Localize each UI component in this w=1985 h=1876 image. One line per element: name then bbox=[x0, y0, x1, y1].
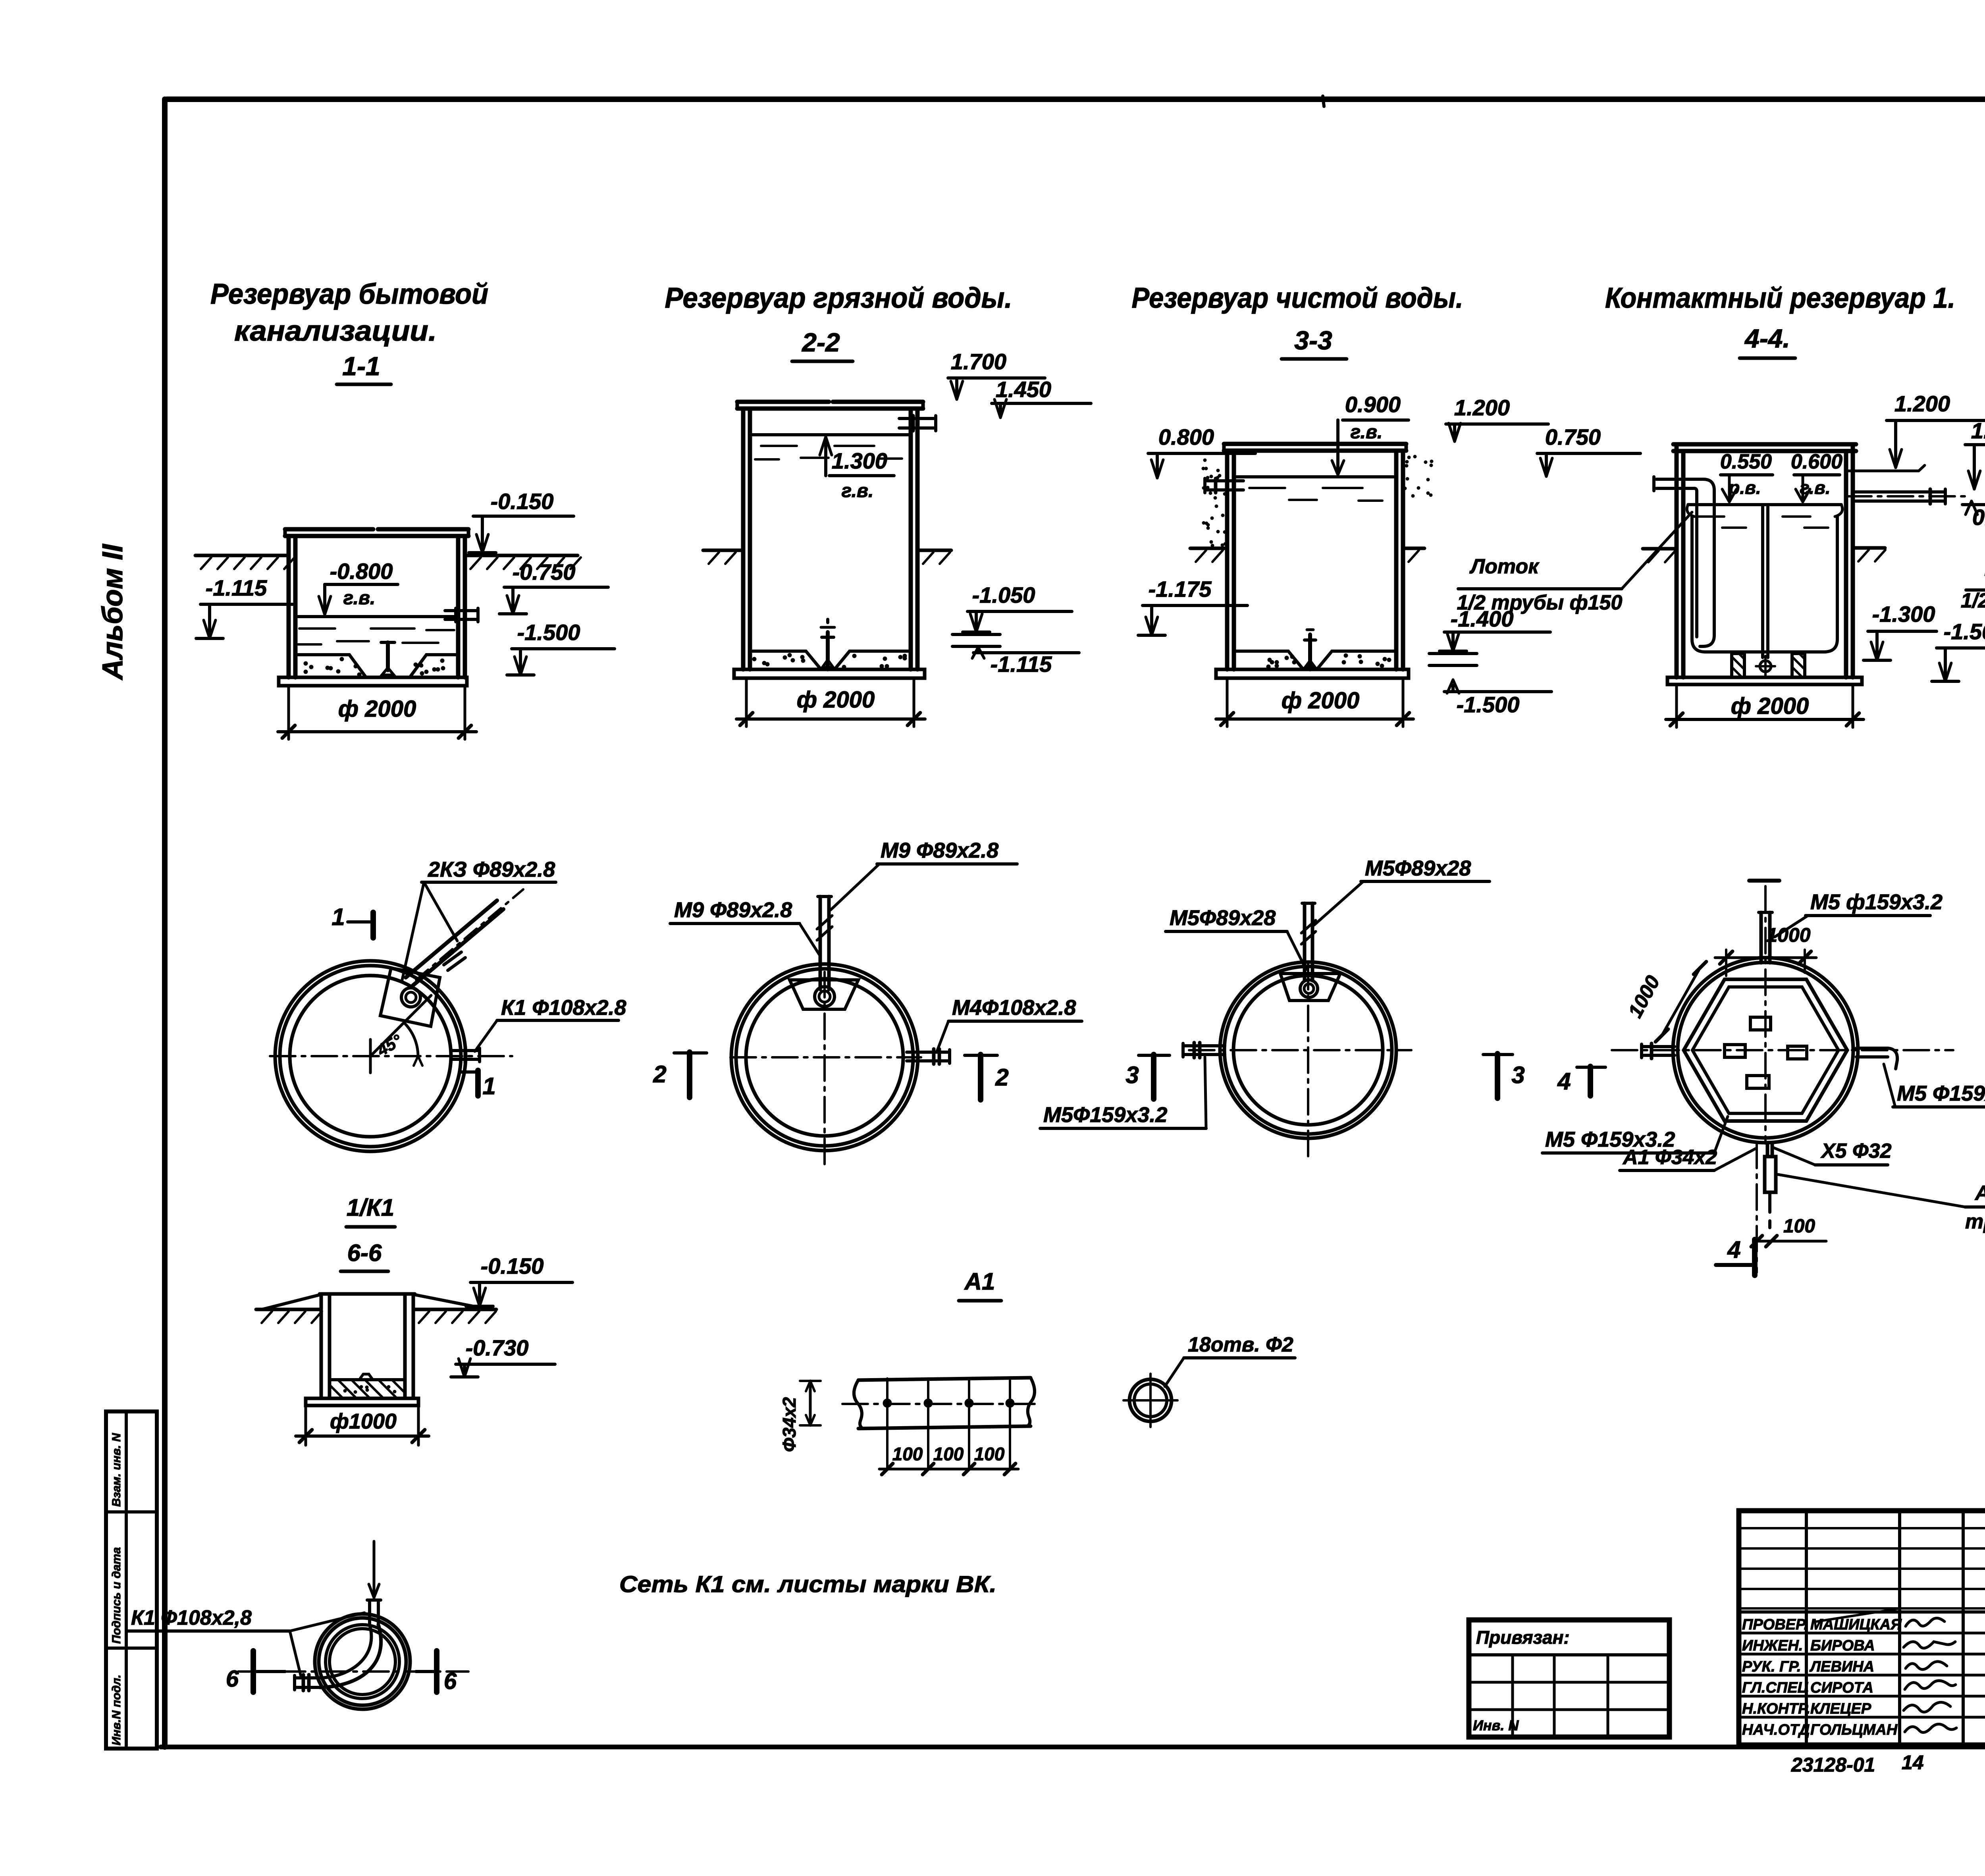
left margin table frame bbox=[106, 1411, 157, 1749]
leader K1 to stub plan 1 bbox=[475, 1020, 497, 1051]
plan 2 horizontal centerline bbox=[730, 1056, 921, 1059]
pryvyazan header line bbox=[1469, 1653, 1669, 1656]
tank 1-1 base slab bbox=[279, 677, 467, 686]
plan 2 inner ring bbox=[746, 979, 903, 1136]
tank 2-2 sediment right bbox=[834, 651, 911, 669]
left margin table column line bbox=[125, 1411, 128, 1749]
plan 1 middle ring bbox=[280, 966, 461, 1147]
well 6-6 top cap bbox=[320, 1292, 415, 1296]
plan 2 lotok outlet circle bbox=[815, 987, 834, 1006]
leader M5 top to riser plan 3 bbox=[1314, 881, 1363, 925]
top frame registration tick bbox=[1323, 96, 1324, 106]
tank 1-1 left wall bbox=[287, 536, 291, 677]
tank 4-4 inner trough rim bbox=[1688, 503, 1841, 506]
break lines between -1.400 and -1.500 tank 3-3 bbox=[1429, 652, 1477, 655]
svg-text:ГОЛЬЦМАН: ГОЛЬЦМАН bbox=[1810, 1722, 1898, 1738]
plan 4 hexagon inner bbox=[1692, 987, 1839, 1114]
dimension f34x2 tube A1 bbox=[809, 1381, 812, 1425]
leader 18 otv bbox=[1165, 1358, 1184, 1386]
plan 3 lotok trapezoid bbox=[1280, 974, 1340, 1001]
inlet pipe with elbow tank 4-4 bbox=[1656, 478, 1703, 481]
svg-text:2КЗ Ф89х2.8: 2КЗ Ф89х2.8 bbox=[428, 858, 555, 881]
pryvyazan grid row 2 bbox=[1469, 1708, 1669, 1711]
leader K1 detail to entry bbox=[290, 1613, 364, 1631]
svg-text:0.800: 0.800 bbox=[1158, 424, 1214, 449]
svg-text:-1.050: -1.050 bbox=[972, 582, 1035, 607]
svg-text:-1.500: -1.500 bbox=[1944, 619, 1985, 644]
leader M5 left to riser plan 3 bbox=[1287, 931, 1306, 970]
left margin table row line 2 bbox=[106, 1647, 157, 1650]
dimension f2000 tank 2-2 bbox=[745, 678, 748, 727]
pryvyazan grid col 1 bbox=[1511, 1655, 1514, 1737]
svg-text:1.000: 1.000 bbox=[1971, 418, 1985, 443]
plan 2 middle ring bbox=[736, 969, 913, 1146]
leader K1 detail to exit stub bbox=[290, 1631, 301, 1676]
svg-text:г.в.: г.в. bbox=[842, 480, 874, 501]
svg-text:100: 100 bbox=[1783, 1216, 1815, 1237]
svg-text:-1.500: -1.500 bbox=[1457, 692, 1520, 717]
plan 3 riser pipe M5 bbox=[1303, 903, 1307, 981]
pipe through right wall tank 1-1 bbox=[445, 609, 478, 612]
tank 2-2 bottom outlet pin bbox=[826, 619, 829, 623]
leader 2K3 to pipe upper bbox=[424, 882, 457, 941]
plan 4 futlyar casing bbox=[1765, 1157, 1776, 1192]
well 6-6 ground line left bbox=[256, 1308, 321, 1311]
svg-text:канализации.: канализации. bbox=[234, 315, 437, 347]
svg-text:-0.800: -0.800 bbox=[330, 559, 393, 584]
svg-text:Х5 Ф32: Х5 Ф32 bbox=[1820, 1139, 1892, 1163]
svg-text:БИРОВА: БИРОВА bbox=[1810, 1637, 1875, 1654]
tank 1-1 water dashes bbox=[299, 627, 335, 630]
tank 2-2 base slab bbox=[734, 669, 925, 678]
leader 2K3 to diagonal pipe bbox=[402, 882, 424, 981]
staff table column line 1 bbox=[1805, 1511, 1808, 1745]
svg-text:Взам. инв. N: Взам. инв. N bbox=[110, 1433, 123, 1507]
plan 1 lotok wedge bbox=[380, 968, 440, 1026]
dimension 1000 top plan 4 bbox=[1725, 950, 1727, 976]
plan 4 middle ring bbox=[1678, 962, 1853, 1138]
svg-text:6: 6 bbox=[444, 1668, 457, 1694]
tank 1-1 sediment right bbox=[410, 655, 458, 677]
svg-text:ГЛ.СПЕЦ: ГЛ.СПЕЦ bbox=[1742, 1679, 1809, 1696]
ground line right of tank 4-4 bbox=[1853, 546, 1885, 550]
svg-text:4-4.: 4-4. bbox=[1744, 324, 1790, 353]
plan 3 middle ring bbox=[1224, 966, 1392, 1134]
svg-text:4: 4 bbox=[1557, 1068, 1571, 1095]
tank 4-4 base slab bbox=[1667, 677, 1862, 684]
break lines between -1.050 and -1.115 bbox=[952, 633, 1000, 636]
tank 4-4 water dashes right chamber bbox=[1783, 515, 1810, 518]
svg-text:1.300: 1.300 bbox=[832, 448, 887, 473]
tank 2-2 right wall bbox=[909, 409, 913, 669]
signature flourish over maschitskaya bbox=[1814, 1609, 1898, 1622]
plan 4 outer ring bbox=[1673, 958, 1858, 1143]
sheet frame left border bbox=[162, 99, 168, 1747]
section mark 2 right plan 2 bbox=[965, 1054, 997, 1057]
svg-text:г.в.: г.в. bbox=[343, 588, 376, 609]
plan 4 clamp right bbox=[1788, 1046, 1807, 1059]
tank 4-4 left wall bbox=[1675, 444, 1679, 677]
well 6-6 right wall bbox=[403, 1295, 407, 1398]
staff table column line 3 bbox=[1962, 1511, 1965, 1745]
pipe ring detail K1 inner circles bbox=[326, 1625, 399, 1699]
tank 1-1 bottom outlet pin bbox=[386, 642, 390, 670]
tank 3-3 right wall bbox=[1394, 451, 1399, 669]
svg-text:НАЧ.ОТД: НАЧ.ОТД bbox=[1742, 1722, 1810, 1738]
svg-text:А1: А1 bbox=[964, 1268, 995, 1295]
svg-text:23128-01: 23128-01 bbox=[1791, 1754, 1875, 1776]
plan 2 vertical centerline bbox=[823, 972, 826, 1165]
ground line right of tank 1-1 bbox=[465, 554, 578, 557]
svg-text:А1 Ф34х2: А1 Ф34х2 bbox=[1622, 1146, 1717, 1169]
plan 1 45 degree arc bbox=[404, 1023, 418, 1056]
plan 4 clamp top bbox=[1750, 1017, 1771, 1030]
backfill soil dots left of tank 3-3 bbox=[1202, 467, 1205, 470]
svg-text:М9 Ф89х2.8: М9 Ф89х2.8 bbox=[674, 898, 792, 922]
staff table frame bbox=[1739, 1511, 1985, 1745]
svg-text:Контактный резервуар 1.: Контактный резервуар 1. bbox=[1605, 282, 1955, 314]
plan 4 left stub bbox=[1642, 1045, 1675, 1048]
svg-text:М5 Ф159х3.2: М5 Ф159х3.2 bbox=[1897, 1082, 1985, 1105]
tank 1-1 water line bbox=[295, 615, 458, 618]
well 6-6 floor notch bbox=[359, 1374, 373, 1380]
dimension f2000 tank 4-4 bbox=[1675, 684, 1678, 727]
tank 3-3 lid bbox=[1224, 442, 1406, 446]
svg-text:РУК. ГР.: РУК. ГР. bbox=[1742, 1658, 1801, 1675]
pipe K1 flow arrow top bbox=[373, 1541, 376, 1594]
svg-text:М9 Ф89х2.8: М9 Ф89х2.8 bbox=[881, 839, 998, 862]
plan 2 lotok trapezoid bbox=[790, 980, 858, 1009]
svg-text:М5 ф159х3.2: М5 ф159х3.2 bbox=[1810, 890, 1943, 914]
svg-text:труба-футляр Ф100: труба-футляр Ф100 bbox=[1965, 1210, 1985, 1233]
tank 3-3 base slab bbox=[1216, 669, 1409, 678]
plan 4 clamp bottom bbox=[1747, 1076, 1769, 1088]
svg-text:3: 3 bbox=[1511, 1062, 1524, 1088]
outlet pipe centerline tank 4-4 bbox=[1846, 495, 1966, 497]
ground line left of tank 4-4 bbox=[1643, 547, 1677, 551]
well 6-6 concrete floor bbox=[330, 1380, 405, 1398]
svg-text:0.900: 0.900 bbox=[1345, 392, 1401, 417]
svg-text:М5Ф89х28: М5Ф89х28 bbox=[1365, 856, 1471, 880]
pryvyazan grid col 3 bbox=[1607, 1655, 1609, 1737]
tank 4-4 inner shell bbox=[1690, 517, 1694, 639]
svg-text:2-2: 2-2 bbox=[801, 328, 840, 357]
tank 4-4 central partition bbox=[1761, 507, 1764, 657]
plan 3 lotok outlet circle bbox=[1300, 980, 1318, 997]
svg-text:Инв.N подл.: Инв.N подл. bbox=[110, 1675, 123, 1745]
plan 2 outer ring bbox=[731, 964, 918, 1151]
svg-text:1: 1 bbox=[482, 1073, 495, 1099]
tank 2-2 left wall bbox=[741, 409, 746, 669]
svg-text:ИНЖЕН.: ИНЖЕН. bbox=[1742, 1637, 1803, 1654]
pipe cross-section 18 holes bbox=[1129, 1379, 1172, 1421]
tank 2-2 water dashes bbox=[761, 445, 797, 447]
leader X5 plan 4 bbox=[1773, 1147, 1815, 1165]
tank 4-4 support right bbox=[1792, 654, 1805, 677]
title block pryvyazan box bbox=[1469, 1620, 1669, 1737]
elevation 0.700 tank 4-4 bbox=[1962, 503, 1985, 506]
svg-text:г.в.: г.в. bbox=[1351, 422, 1383, 443]
pipe through left wall tank 3-3 bbox=[1205, 479, 1243, 482]
left margin table row line 1 bbox=[106, 1510, 157, 1514]
svg-text:100: 100 bbox=[892, 1444, 923, 1464]
plan 1 inner ring bbox=[290, 976, 451, 1137]
svg-text:6: 6 bbox=[226, 1666, 239, 1692]
leader M9 top to riser plan 2 bbox=[831, 864, 879, 910]
overflow tube tank 4-4 bbox=[1845, 470, 1919, 472]
pipe ring detail K1 outer circles bbox=[315, 1614, 410, 1709]
svg-text:0.750: 0.750 bbox=[1545, 424, 1601, 449]
well 6-6 left wall bbox=[320, 1294, 323, 1398]
svg-text:Резервуар чистой воды.: Резервуар чистой воды. bbox=[1132, 282, 1463, 314]
staff table signatures bbox=[1906, 1618, 1945, 1626]
ground line right of tank 2-2 bbox=[917, 549, 951, 552]
plan 1 diagonal pipe centerline bbox=[416, 889, 523, 980]
svg-text:ЛЕВИНА: ЛЕВИНА bbox=[1809, 1658, 1874, 1675]
svg-text:МАШИЦКАЯ: МАШИЦКАЯ bbox=[1810, 1616, 1902, 1633]
leader A1 plan 4 bbox=[1714, 1148, 1756, 1170]
svg-text:ф 2000: ф 2000 bbox=[1282, 688, 1359, 713]
well 6-6 mound slope right bbox=[413, 1294, 489, 1309]
tank 4-4 support left bbox=[1732, 654, 1744, 677]
plan 2 riser pipe M9 bbox=[819, 897, 822, 989]
plan 1 lotok outlet circle bbox=[401, 988, 420, 1007]
svg-text:-1.175: -1.175 bbox=[1149, 576, 1212, 602]
ground line left of tank 1-1 bbox=[195, 554, 289, 557]
plan 4 hexagon outer bbox=[1684, 979, 1847, 1121]
leader M9 left to riser plan 2 bbox=[800, 924, 820, 956]
svg-text:-1.115: -1.115 bbox=[206, 575, 267, 600]
leader M5 top right plan 4 bbox=[1775, 916, 1808, 937]
tank 1-1 right wall bbox=[456, 536, 461, 677]
svg-text:3-3: 3-3 bbox=[1294, 326, 1332, 355]
svg-text:К1 Ф108х2.8: К1 Ф108х2.8 bbox=[501, 996, 626, 1020]
svg-text:1.450: 1.450 bbox=[996, 377, 1051, 402]
svg-text:Сеть К1 см. листы марки ВК.: Сеть К1 см. листы марки ВК. bbox=[619, 1571, 996, 1597]
plan 3 inner ring bbox=[1233, 976, 1383, 1125]
tank 2-2 lid bbox=[737, 400, 829, 404]
pipe K1 exit stub left bbox=[295, 1676, 320, 1679]
staff table column line 2 bbox=[1898, 1511, 1901, 1745]
tank 1-1 sediment left bbox=[295, 655, 366, 677]
svg-text:-1.115: -1.115 bbox=[991, 652, 1052, 677]
plan 4 vertical centerline bbox=[1764, 886, 1767, 1143]
tank 3-3 water line bbox=[1234, 475, 1396, 478]
svg-text:Подпись и дата: Подпись и дата bbox=[110, 1547, 123, 1644]
svg-text:Асбестоцементная: Асбестоцементная bbox=[1974, 1182, 1985, 1205]
section mark 1 bottom right plan 1 bbox=[461, 1070, 479, 1074]
ground line left of tank 2-2 bbox=[703, 549, 743, 552]
plan 4 top stub M5 bbox=[1760, 912, 1763, 963]
leader M4 to stub plan 2 bbox=[937, 1021, 948, 1051]
svg-text:3: 3 bbox=[1125, 1062, 1139, 1088]
svg-text:Резервуар бытовой: Резервуар бытовой bbox=[210, 278, 488, 310]
svg-text:6-6: 6-6 bbox=[347, 1240, 382, 1266]
svg-text:0.550: 0.550 bbox=[1720, 450, 1772, 473]
dimension f2000 tank 1-1 bbox=[287, 686, 290, 739]
svg-text:ф 2000: ф 2000 bbox=[338, 696, 416, 722]
svg-text:-1.500: -1.500 bbox=[517, 620, 580, 645]
leader M5 159 to stub plan 3 bbox=[1205, 1057, 1206, 1128]
plan 4 right stub bbox=[1856, 1047, 1888, 1050]
plan 1 diagonal pipe 2K3 bbox=[406, 900, 497, 978]
well 6-6 base slab bbox=[306, 1398, 418, 1406]
outlet pipe right tank 4-4 bbox=[1853, 490, 1945, 494]
plan 1 horizontal centerline bbox=[270, 1055, 512, 1057]
svg-text:Лоток: Лоток bbox=[1469, 555, 1540, 578]
svg-text:ф 2000: ф 2000 bbox=[797, 687, 875, 713]
tank 2-2 sediment left bbox=[750, 651, 821, 669]
svg-text:-0.150: -0.150 bbox=[481, 1253, 544, 1278]
svg-text:ф 2000: ф 2000 bbox=[1731, 693, 1809, 719]
leader M5 right plan 4 bbox=[1884, 1064, 1895, 1107]
plan 4 clamp left bbox=[1725, 1045, 1745, 1057]
plan 3 horizontal centerline bbox=[1189, 1049, 1411, 1051]
svg-text:М4Ф108х2.8: М4Ф108х2.8 bbox=[952, 996, 1076, 1020]
svg-text:0.600: 0.600 bbox=[1791, 450, 1842, 473]
svg-text:1.200: 1.200 bbox=[1894, 391, 1950, 416]
svg-text:14: 14 bbox=[1902, 1751, 1924, 1774]
dimension 100 bottom plan 4 bbox=[1754, 1240, 1826, 1243]
tank 3-3 bottom outlet pin bbox=[1308, 634, 1312, 669]
svg-text:100: 100 bbox=[974, 1444, 1005, 1464]
svg-text:Ф34х2: Ф34х2 bbox=[779, 1397, 800, 1452]
svg-text:-1.300: -1.300 bbox=[1872, 602, 1935, 627]
svg-text:1: 1 bbox=[331, 904, 345, 930]
plan 4 bottom pipe X5 bbox=[1766, 1143, 1769, 1157]
pipe through right wall tank 2-2 top bbox=[899, 417, 936, 420]
svg-text:Привязан:: Привязан: bbox=[1476, 1627, 1570, 1648]
svg-text:2: 2 bbox=[653, 1061, 666, 1087]
svg-text:18отв. Ф2: 18отв. Ф2 bbox=[1188, 1333, 1293, 1356]
tank 4-4 water dashes left chamber bbox=[1696, 515, 1724, 518]
plan 3 vertical centerline bbox=[1307, 964, 1309, 1156]
sheet frame bottom border bbox=[161, 1745, 1985, 1749]
ground line right of tank 3-3 bbox=[1403, 547, 1424, 550]
svg-text:1-1: 1-1 bbox=[342, 351, 380, 381]
svg-text:4: 4 bbox=[1727, 1236, 1740, 1263]
tube A1 rivet holes bbox=[883, 1399, 892, 1407]
svg-text:М5Ф89х28: М5Ф89х28 bbox=[1170, 906, 1276, 930]
svg-text:Резервуар грязной воды.: Резервуар грязной воды. bbox=[665, 282, 1012, 314]
svg-text:1.200: 1.200 bbox=[1454, 395, 1510, 420]
svg-text:1.700: 1.700 bbox=[951, 349, 1006, 374]
svg-text:1/К1: 1/К1 bbox=[347, 1194, 394, 1221]
svg-text:ф1000: ф1000 bbox=[330, 1409, 397, 1433]
svg-text:ПРОВЕР.: ПРОВЕР. bbox=[1742, 1616, 1808, 1633]
dimension 1000 diagonal plan 4 bbox=[1662, 968, 1700, 1035]
svg-text:М5Ф159х3.2: М5Ф159х3.2 bbox=[1043, 1103, 1167, 1127]
svg-text:1/2трубы ф160: 1/2трубы ф160 bbox=[1961, 589, 1985, 612]
staff table labeled row lines bbox=[1739, 1632, 1985, 1635]
svg-text:Инв. N: Инв. N bbox=[1473, 1717, 1519, 1733]
svg-text:1/2 трубы ф150: 1/2 трубы ф150 bbox=[1457, 591, 1623, 614]
tank 3-3 sediment left bbox=[1234, 651, 1303, 669]
lotok leader tank 4-4 bbox=[1622, 512, 1692, 589]
svg-text:-0.750: -0.750 bbox=[513, 559, 576, 584]
svg-text:100: 100 bbox=[933, 1444, 964, 1464]
pryvyazan grid col 2 bbox=[1553, 1655, 1556, 1737]
tank 3-3 left wall bbox=[1225, 451, 1230, 669]
svg-text:К1 Ф108х2,8: К1 Ф108х2,8 bbox=[131, 1606, 252, 1629]
well 6-6 mound slope left bbox=[262, 1294, 322, 1309]
svg-text:0.700: 0.700 bbox=[1972, 505, 1985, 530]
pryvyazan grid row 1 bbox=[1469, 1681, 1669, 1684]
dimension f1000 well 6-6 bbox=[304, 1406, 307, 1445]
plan 2 outlet stub M4 bbox=[907, 1051, 950, 1054]
backfill soil dots right of tank 3-3 bbox=[1405, 464, 1408, 467]
dimension f2000 tank 3-3 bbox=[1226, 678, 1229, 727]
section mark 3 right plan 3 bbox=[1483, 1053, 1513, 1056]
plan 1 outlet stub K1 bbox=[453, 1049, 480, 1052]
staff table row line heavy bbox=[1739, 1610, 1985, 1614]
ground line left of tank 3-3 bbox=[1190, 547, 1227, 550]
plan 1 outer ring bbox=[275, 961, 466, 1151]
tank 3-3 water dashes bbox=[1249, 487, 1285, 489]
svg-text:2: 2 bbox=[995, 1064, 1008, 1091]
tank 4-4 rim bbox=[1673, 442, 1856, 447]
svg-text:Н.КОНТР.: Н.КОНТР. bbox=[1742, 1701, 1810, 1717]
plan 3 outer ring bbox=[1220, 962, 1396, 1138]
plan 4 top section tick bbox=[1749, 879, 1779, 883]
plan 4 bottom pipe A1 centerline bbox=[1756, 1143, 1758, 1273]
tank 3-3 sediment right bbox=[1317, 651, 1396, 669]
tube A1 centerline bbox=[842, 1403, 1039, 1405]
svg-text:-0.150: -0.150 bbox=[491, 489, 554, 514]
sheet frame top border bbox=[167, 96, 1985, 102]
well 6-6 ground line right bbox=[413, 1308, 496, 1311]
plan 3 inlet stub M5 left bbox=[1183, 1044, 1225, 1047]
svg-text:1000: 1000 bbox=[1624, 972, 1664, 1022]
pipe K1 swirl bbox=[320, 1625, 381, 1687]
svg-text:Альбом II: Альбом II bbox=[97, 544, 129, 681]
svg-text:СИРОТА: СИРОТА bbox=[1810, 1679, 1873, 1696]
tank 2-2 water line bbox=[750, 433, 911, 436]
detail K1 horizontal centerline bbox=[238, 1670, 468, 1673]
svg-text:г.в.: г.в. bbox=[1800, 477, 1830, 498]
dimension 100 100 100 tube A1 bbox=[879, 1468, 1018, 1471]
plan 1 center tick bbox=[369, 1039, 372, 1073]
svg-text:-0.730: -0.730 bbox=[466, 1335, 529, 1360]
tube body A1 bbox=[858, 1378, 1031, 1380]
section mark 6 right detail K1 bbox=[416, 1670, 437, 1673]
svg-text:КЛЕЦЕР: КЛЕЦЕР bbox=[1810, 1701, 1871, 1717]
tank 4-4 right wall bbox=[1844, 451, 1848, 677]
plan 4 horizontal centerline bbox=[1612, 1049, 1953, 1051]
staff table thin rows bbox=[1739, 1527, 1985, 1529]
pipe K1 entry stub top bbox=[368, 1600, 371, 1625]
leader M5 bottom left plan 4 bbox=[1714, 1116, 1728, 1153]
leader asbestotsementnaya to plan 4 futlyar bbox=[1778, 1174, 1965, 1207]
tank 1-1 lid bbox=[285, 527, 373, 532]
plan 1 45 degree line bbox=[370, 995, 431, 1056]
